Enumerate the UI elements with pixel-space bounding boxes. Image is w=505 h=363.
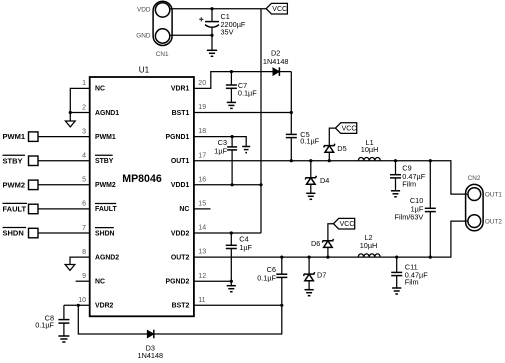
svg-text:U1: U1 [139, 65, 150, 74]
svg-text:13: 13 [198, 249, 206, 256]
capacitor C1 [199, 7, 246, 50]
svg-text:VDR1: VDR1 [171, 86, 190, 93]
diode D5 (zener to VCC) [324, 128, 347, 162]
svg-text:VDD: VDD [137, 7, 151, 14]
wire GND from CN1 [170, 34, 212, 36]
diode D6 (zener to VCC) [311, 224, 334, 259]
svg-text:10µH: 10µH [360, 241, 378, 250]
svg-text:Film: Film [402, 179, 416, 188]
svg-text:NC: NC [95, 86, 105, 93]
wire PGND1 pin18 [194, 137, 246, 147]
svg-text:PWM2: PWM2 [3, 180, 26, 189]
svg-text:1µF: 1µF [239, 243, 252, 252]
wire BST1 pin19 [194, 112, 291, 114]
svg-text:FAULT: FAULT [3, 205, 27, 214]
svg-text:OUT2: OUT2 [171, 254, 190, 261]
svg-text:1N4148: 1N4148 [263, 57, 289, 66]
svg-text:NC: NC [95, 279, 105, 286]
svg-text:4: 4 [82, 153, 86, 160]
stub NC pin9 [76, 280, 90, 282]
svg-text:17: 17 [198, 152, 206, 159]
svg-text:AGND1: AGND1 [95, 110, 119, 117]
svg-text:VCC: VCC [340, 221, 355, 228]
svg-text:STBY: STBY [3, 156, 23, 165]
svg-text:8: 8 [82, 249, 86, 256]
wire NC pin1 / AGND1 pin2 [70, 88, 89, 112]
svg-text:BST2: BST2 [172, 303, 190, 310]
svg-text:5: 5 [82, 177, 86, 184]
svg-text:20: 20 [198, 80, 206, 87]
wire VDD2 pin14 [194, 232, 261, 234]
connector CN2 [466, 184, 484, 230]
svg-text:NC: NC [179, 206, 189, 213]
capacitor C5 [286, 113, 320, 163]
capacitor C4 [226, 231, 253, 281]
wire VDR2 pin10 [64, 304, 90, 306]
svg-text:STBY: STBY [95, 158, 114, 165]
wire VDD rail [170, 8, 266, 10]
svg-text:CN2: CN2 [468, 175, 481, 182]
svg-text:12: 12 [198, 273, 206, 280]
capacitor C11 [391, 256, 428, 289]
svg-text:D6: D6 [311, 239, 320, 248]
wire VDD1 pin16 [194, 184, 261, 186]
ground for D4 [306, 193, 315, 199]
wire VCC vertical trunk [260, 9, 262, 233]
svg-text:1: 1 [82, 80, 86, 87]
diode D3 1N4148 [138, 330, 164, 360]
svg-text:VCC: VCC [272, 6, 287, 13]
diode D7 (zener to ground) [304, 256, 327, 290]
svg-text:2: 2 [82, 104, 86, 111]
svg-text:VDR2: VDR2 [95, 303, 114, 310]
svg-text:OUT2: OUT2 [485, 218, 502, 225]
svg-text:D4: D4 [320, 176, 329, 185]
svg-text:OUT1: OUT1 [171, 158, 190, 165]
ground for PGND1 [242, 147, 250, 153]
svg-text:15: 15 [198, 201, 206, 208]
svg-text:VCC: VCC [342, 126, 357, 133]
input PWM2 [3, 180, 90, 190]
svg-text:0.1µF: 0.1µF [300, 136, 319, 145]
input FAULT [3, 203, 90, 213]
svg-text:PWM2: PWM2 [95, 182, 116, 189]
svg-text:10: 10 [78, 297, 86, 304]
svg-text:VDD1: VDD1 [171, 182, 190, 189]
ground for C11 [392, 288, 401, 294]
wire VDR1 pin20 to D2 node [194, 72, 273, 89]
power tag VCC top [266, 3, 287, 14]
svg-text:MP8046: MP8046 [122, 173, 162, 185]
svg-text:16: 16 [198, 176, 206, 183]
input STBY [3, 155, 90, 165]
svg-text:18: 18 [198, 128, 206, 135]
svg-text:PWM1: PWM1 [3, 132, 26, 141]
input SHDN [3, 228, 90, 238]
svg-text:7: 7 [82, 225, 86, 232]
svg-text:PGND1: PGND1 [166, 134, 190, 141]
svg-text:BST1: BST1 [172, 110, 190, 117]
svg-text:Film: Film [405, 278, 419, 287]
svg-text:9: 9 [82, 273, 86, 280]
svg-text:19: 19 [198, 104, 206, 111]
IC U1 body [90, 77, 194, 316]
capacitor C8 [35, 305, 69, 336]
input PWM1 [3, 132, 90, 142]
wire OUT2 pin13 to CN2 [194, 221, 467, 257]
svg-text:PWM1: PWM1 [95, 134, 116, 141]
power tag VCC for D6 [334, 218, 355, 229]
svg-text:14: 14 [198, 225, 206, 232]
ground for C9 [391, 191, 400, 197]
svg-text:OUT1: OUT1 [485, 191, 502, 198]
svg-text:FAULT: FAULT [95, 206, 117, 213]
diode D2 1N4148 [263, 49, 291, 113]
svg-text:VDD2: VDD2 [171, 230, 190, 237]
svg-text:D5: D5 [337, 144, 346, 153]
svg-text:GND: GND [136, 33, 151, 40]
ground for C1 [207, 50, 217, 56]
capacitor C3 [214, 135, 237, 185]
svg-text:35V: 35V [221, 28, 234, 37]
svg-text:Film/63V: Film/63V [395, 212, 424, 221]
svg-text:0.1µF: 0.1µF [238, 89, 257, 98]
svg-text:3: 3 [82, 128, 86, 135]
svg-text:6: 6 [82, 201, 86, 208]
power tag VCC for D5 [336, 123, 357, 134]
wire OUT1 pin17 to CN2 [194, 161, 467, 194]
wire BST2 pin11 [194, 304, 282, 306]
svg-text:AGND2: AGND2 [95, 254, 119, 261]
svg-text:0.1µF: 0.1µF [35, 321, 54, 330]
inductor L1 [358, 138, 380, 161]
ground for C7 [227, 102, 236, 108]
ground for C8 [58, 336, 69, 342]
svg-text:PGND2: PGND2 [166, 279, 190, 286]
junction BST1/D2/C5 [290, 111, 293, 114]
svg-text:1N4148: 1N4148 [138, 351, 164, 360]
svg-text:C4: C4 [239, 234, 248, 243]
svg-text:11: 11 [198, 297, 205, 304]
capacitor C7 [226, 70, 257, 102]
ground for PGND2/C4 [227, 286, 236, 292]
svg-text:1µF: 1µF [214, 146, 227, 155]
wire PGND2 pin12 [194, 280, 231, 282]
inductor L2 [358, 233, 380, 257]
capacitor C10 [395, 159, 436, 259]
svg-text:D7: D7 [317, 270, 326, 279]
capacitor C9 [390, 159, 426, 191]
svg-text:SHDN: SHDN [3, 229, 24, 238]
capacitor C6 [257, 256, 287, 306]
svg-text:SHDN: SHDN [95, 230, 115, 237]
ground AGND1 (signal ground triangle) [65, 113, 75, 127]
ground for D7 [305, 290, 314, 296]
svg-text:10µH: 10µH [361, 145, 379, 154]
svg-text:CN1: CN1 [156, 51, 169, 58]
diode D4 (zener to ground) [305, 159, 329, 193]
connector CN1 [153, 1, 172, 45]
stub NC pin15 [194, 208, 211, 210]
wire AGND2 pin8 [70, 257, 90, 264]
svg-text:0.1µF: 0.1µF [257, 274, 276, 283]
wire VDR2 to D3 to BST2 [78, 305, 147, 334]
ground AGND2 (signal ground triangle) [65, 265, 75, 271]
